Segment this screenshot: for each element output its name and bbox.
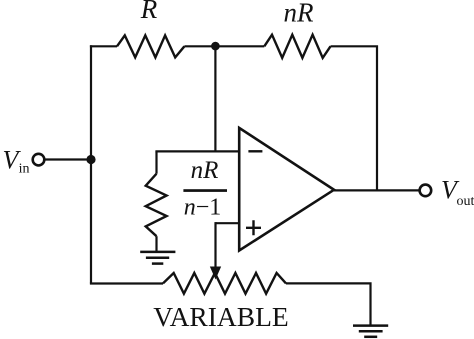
wire: resistor R3 bottom to ground (155, 236, 157, 252)
wiper arrowhead (211, 267, 221, 278)
svg-text:nR: nR (284, 0, 315, 28)
variable resistor RV1 (163, 273, 286, 294)
node A junction dot (211, 42, 220, 51)
op-amp U1 triangle (239, 128, 334, 251)
ground GND2 (353, 326, 388, 337)
terminal circle Vin (33, 154, 45, 166)
ground GND1 (140, 252, 175, 264)
wire: Vin terminal to left bus (44, 158, 91, 160)
wire: node A down to inverting input line (214, 46, 216, 151)
svg-text:in: in (19, 162, 30, 177)
svg-text:VARIABLE: VARIABLE (153, 301, 288, 332)
svg-text:n−1: n−1 (184, 195, 222, 221)
wire: inverting input horizontal line (155, 150, 239, 152)
wire: variable resistor right side to ground corner (286, 283, 371, 325)
wire: nR to top-right corner then down to output node (331, 46, 378, 190)
wire: non-inverting input horizontal line (216, 222, 240, 224)
resistor R2 (nR) (264, 35, 330, 58)
wire: from R through node A to resistor nR (184, 45, 264, 47)
wire: wiper vertical line down to variable resistor (214, 222, 216, 268)
wire: op-amp output to Vout terminal (334, 189, 420, 191)
svg-text:nR: nR (191, 157, 219, 184)
wire: left vertical bus (top-left corner to bottom-left corner) (90, 45, 92, 283)
op-amp non-inverting input plus sign (246, 220, 261, 235)
terminal circle Vout (420, 185, 432, 197)
wire: top-left horizontal from corner to resistor R (90, 45, 117, 47)
svg-text:out: out (457, 194, 474, 209)
svg-text:R: R (140, 0, 158, 24)
node Vin junction dot (86, 155, 95, 164)
wire: bottom-left horizontal to variable resistor (90, 282, 163, 284)
op-amp inverting input minus sign (248, 150, 262, 152)
resistor R1 (R) (117, 35, 184, 57)
wire: down from inverting line to resistor R3 (155, 151, 157, 173)
resistor R3 (nR/(n-1)) vertical (146, 174, 167, 237)
fraction bar (183, 189, 227, 192)
